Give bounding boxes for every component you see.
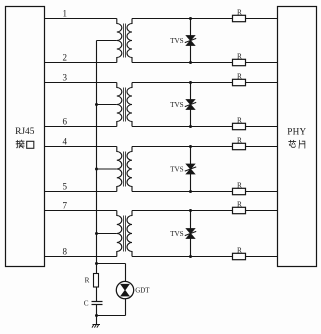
svg-text:6: 6 [63,117,68,127]
svg-text:5: 5 [63,182,68,192]
svg-text:2: 2 [63,53,68,63]
svg-text:R: R [85,276,90,284]
svg-text:R: R [237,7,242,16]
svg-text:8: 8 [63,247,68,257]
svg-text:PHY: PHY [287,126,306,136]
svg-text:R: R [237,245,242,254]
svg-text:R: R [237,71,242,80]
svg-text:1: 1 [63,9,68,19]
svg-text:R: R [237,180,242,189]
svg-text:TVS: TVS [170,230,184,238]
svg-text:7: 7 [63,201,68,211]
svg-text:C: C [84,299,89,307]
svg-text:4: 4 [63,137,68,147]
svg-text:TVS: TVS [170,101,184,109]
svg-text:TVS: TVS [170,37,184,45]
svg-text:R: R [237,199,242,208]
svg-text:R: R [237,135,242,144]
svg-text:3: 3 [63,73,68,83]
svg-text:TVS: TVS [170,166,184,174]
svg-text:RJ45: RJ45 [15,127,35,137]
svg-text:GDT: GDT [135,286,150,294]
svg-text:R: R [237,51,242,60]
svg-text:R: R [237,115,242,124]
